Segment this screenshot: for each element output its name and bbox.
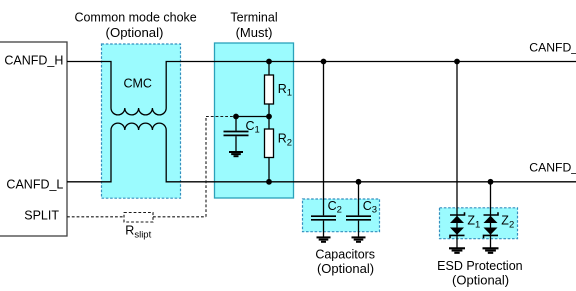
svg-text:SPLIT: SPLIT — [24, 209, 59, 223]
wire CANFD_H with CMC top winding — [67, 62, 576, 115]
resistor Rslipt (dashed) — [124, 213, 153, 223]
ground (Z2) — [483, 248, 499, 253]
ESD protection optional box — [440, 208, 518, 239]
wire CANFD_L with CMC bottom winding — [67, 123, 576, 182]
svg-text:CANFD_L: CANFD_L — [529, 161, 576, 175]
svg-text:CMC: CMC — [123, 77, 151, 91]
resistor R2 — [265, 129, 274, 158]
wire C1 to mid junction — [236, 116, 269, 118]
svg-text:(Optional): (Optional) — [452, 273, 509, 288]
wire R branch vertical — [268, 62, 270, 182]
svg-text:(Optional): (Optional) — [106, 25, 164, 40]
capacitor C2 — [311, 62, 336, 238]
svg-text:Capacitors: Capacitors — [315, 248, 375, 262]
svg-text:(Must): (Must) — [236, 25, 273, 40]
svg-text:Common mode choke: Common mode choke — [74, 11, 196, 25]
resistor R1 — [265, 75, 274, 104]
ground (Z1) — [449, 248, 465, 253]
capacitors optional box — [303, 199, 380, 232]
TVS diode Z1 — [450, 62, 465, 248]
svg-text:ESD Protection: ESD Protection — [437, 259, 523, 273]
svg-text:CANFD_L: CANFD_L — [6, 177, 63, 191]
junction node dots — [233, 59, 493, 185]
capacitor C3 — [346, 182, 371, 237]
terminal must box — [215, 43, 294, 198]
capacitor C1 — [224, 117, 249, 152]
ground (C1) — [229, 152, 243, 156]
svg-text:CANFD_H: CANFD_H — [529, 40, 576, 54]
common mode choke optional box — [102, 44, 181, 198]
transceiver box (left, cut off) — [0, 42, 67, 236]
ground (C2) — [317, 237, 331, 241]
TVS diode Z2 — [484, 182, 499, 248]
svg-text:(Optional): (Optional) — [317, 261, 374, 276]
dashed SPLIT wire — [67, 117, 234, 217]
ground (C3) — [352, 237, 366, 241]
svg-text:CANFD_H: CANFD_H — [4, 54, 63, 68]
svg-text:Terminal: Terminal — [230, 11, 277, 25]
